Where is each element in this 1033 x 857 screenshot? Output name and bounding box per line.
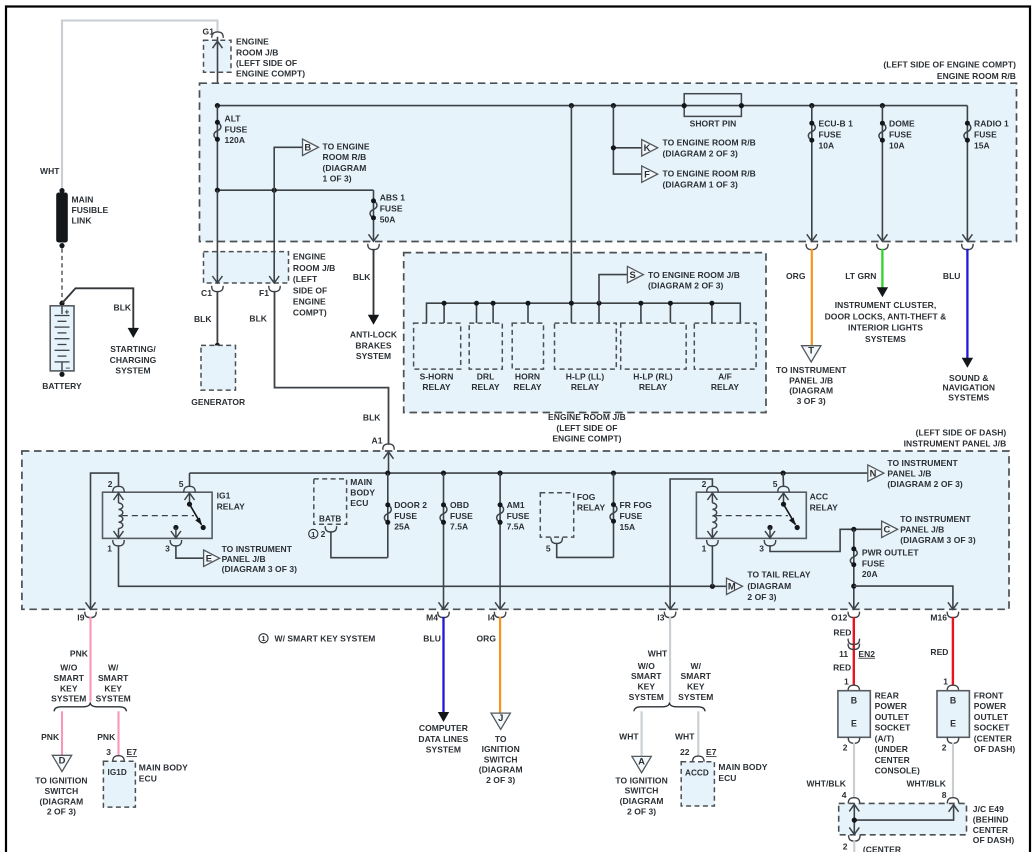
svg-text:FUSE: FUSE [889,130,912,140]
svg-text:1 OF 3): 1 OF 3) [323,174,352,184]
svg-text:SOCKET: SOCKET [875,723,911,733]
connector A1 [383,444,394,450]
svg-text:TO: TO [495,734,507,744]
svg-text:TO INSTRUMENT: TO INSTRUMENT [222,544,293,554]
fuse DOME 10A [881,106,883,242]
svg-text:EN2: EN2 [858,649,875,659]
svg-text:S-HORN: S-HORN [420,372,454,382]
IG1 pin3 contact [173,525,178,530]
svg-text:(LEFT SIDE OF: (LEFT SIDE OF [556,423,617,433]
wire WHT/BLK rear [853,742,855,797]
svg-text:(UNDER: (UNDER [875,744,908,754]
connector E49 pin4 [848,798,859,804]
connector ACC pin2 [707,486,718,492]
svg-text:(A/T): (A/T) [875,733,895,743]
svg-text:S: S [630,269,636,280]
generator box [201,345,236,390]
short pin [684,94,741,117]
svg-text:ALT: ALT [225,114,242,124]
svg-text:SWITCH: SWITCH [44,786,78,796]
wire FOG pin5 to fuse [557,543,614,557]
svg-text:5: 5 [546,544,551,554]
wire PNK to IG1D [117,711,119,756]
svg-text:RELAY: RELAY [217,501,246,511]
connector abs out [368,244,379,250]
svg-text:E: E [851,719,857,729]
svg-text:ENGINE ROOM R/B: ENGINE ROOM R/B [937,71,1016,81]
svg-text:M: M [728,581,736,592]
svg-text:E: E [950,719,956,729]
engine room J/B relay box [404,253,766,413]
svg-text:3: 3 [165,543,170,553]
node acc pin1 rail [710,584,715,589]
svg-text:RELAY: RELAY [639,382,668,392]
svg-text:CONSOLE): CONSOLE) [875,766,920,776]
svg-text:2 OF 3): 2 OF 3) [47,807,76,817]
svg-text:PNK: PNK [70,649,89,659]
connector M16 [947,612,958,618]
svg-text:20A: 20A [862,569,878,579]
connector ACC pin5 [778,486,789,492]
svg-text:PANEL J/B: PANEL J/B [222,554,266,564]
svg-text:ROOM R/B: ROOM R/B [323,152,367,162]
svg-text:TO INSTRUMENT: TO INSTRUMENT [887,458,958,468]
svg-text:FR FOG: FR FOG [620,500,653,510]
fuse AM1 7.5A [499,473,501,609]
main fusible link [59,188,64,193]
svg-text:REAR: REAR [875,690,899,700]
relay S-HORN [414,323,461,369]
svg-text:FUSE: FUSE [620,511,643,521]
svg-text:E7: E7 [127,747,138,757]
connector front socket pin1 [947,685,958,691]
engine room J/B box top [204,40,232,72]
node E49 [852,818,857,823]
svg-text:ENGINE: ENGINE [293,297,326,307]
svg-text:C1: C1 [201,288,212,298]
wire WHT I3 [669,617,671,702]
svg-text:POWER: POWER [875,701,907,711]
svg-text:DOOR LOCKS, ANTI-THEFT &: DOOR LOCKS, ANTI-THEFT & [825,311,947,321]
main body ECU box ACCD [681,762,714,806]
coil IG1 [118,493,120,503]
wire WHT to ACCD [697,711,699,756]
svg-text:KEY: KEY [60,683,78,693]
wire alt to C1 [216,190,218,283]
svg-text:FUSE: FUSE [819,130,842,140]
connector rear socket pin1 [848,685,859,691]
svg-text:W/: W/ [691,661,702,671]
fuse RADIO 1 15A [966,106,968,242]
svg-text:LT GRN: LT GRN [845,271,876,281]
svg-text:KEY: KEY [104,683,122,693]
svg-text:IG1D: IG1D [108,768,127,777]
coil ACC [711,493,713,503]
svg-text:WHT/BLK: WHT/BLK [906,778,946,788]
svg-text:AM1: AM1 [507,500,525,510]
svg-text:BLU: BLU [943,271,961,281]
svg-text:HORN: HORN [515,372,540,382]
svg-text:A1: A1 [372,436,383,446]
flag D to ignition switch [52,755,71,771]
svg-text:RELAY: RELAY [513,382,542,392]
svg-text:FOG: FOG [577,492,596,502]
svg-text:(LEFT: (LEFT [293,274,318,284]
svg-text:T: T [808,345,814,356]
node bus obd [441,471,446,476]
wire RED M16 [952,617,954,685]
connector front socket pin2 [947,737,958,743]
svg-text:SYSTEM: SYSTEM [356,351,391,361]
svg-text:RELAY: RELAY [577,503,606,513]
node bus door2 [385,471,390,476]
wire BLK anti-lock [373,249,375,317]
wire ORG to T [811,249,813,346]
svg-text:(CENTER: (CENTER [863,844,901,852]
wire I3 link [670,479,712,609]
svg-text:(DIAGRAM: (DIAGRAM [479,765,523,775]
svg-text:TO ENGINE: TO ENGINE [323,142,370,152]
svg-text:WHT: WHT [648,649,668,659]
connector I9 [85,612,96,618]
fuse PWR OUTLET 20A [853,529,855,609]
brace I9 split [54,702,127,711]
node bus-dome [880,103,885,108]
node bus-alt [215,103,220,108]
svg-text:H-LP (LL): H-LP (LL) [566,372,605,382]
svg-text:STARTING/: STARTING/ [110,344,156,354]
svg-text:BLK: BLK [114,303,132,313]
svg-text:TO IGNITION: TO IGNITION [615,775,667,785]
connector FOG pin5 [551,538,562,544]
svg-text:(DIAGRAM: (DIAGRAM [789,386,833,396]
svg-text:120A: 120A [225,135,246,145]
svg-text:IG1: IG1 [217,491,231,501]
svg-text:11: 11 [839,649,848,659]
svg-text:CHARGING: CHARGING [110,355,157,365]
connector F1 [269,286,280,292]
svg-text:–: – [66,364,71,373]
svg-text:(DIAGRAM: (DIAGRAM [39,796,83,806]
svg-text:K: K [644,142,651,153]
svg-text:RELAY: RELAY [711,382,740,392]
svg-text:F: F [644,169,650,180]
wire ACC pin5 riser [782,473,784,487]
wire IG1 pin1 rail [119,545,727,586]
node B-branch [272,188,277,193]
svg-text:WHT: WHT [40,166,60,176]
svg-text:MAIN: MAIN [72,195,94,205]
wire WHT battery feed [62,21,218,190]
instrument panel J/B box [22,451,1009,609]
svg-text:25A: 25A [394,522,410,532]
svg-text:INSTRUMENT CLUSTER,: INSTRUMENT CLUSTER, [835,300,937,310]
svg-text:10A: 10A [889,141,905,151]
svg-text:BLK: BLK [363,412,381,422]
relay FOG box [540,493,573,537]
svg-text:(DIAGRAM 2 OF 3): (DIAGRAM 2 OF 3) [663,149,739,159]
svg-text:15A: 15A [620,522,636,532]
svg-text:FRONT: FRONT [974,690,1004,700]
fuse FR FOG 15A [613,473,615,557]
svg-text:NAVIGATION: NAVIGATION [942,383,995,393]
svg-text:WHT: WHT [675,732,695,742]
svg-text:ECU: ECU [139,773,157,783]
wire dashed battery link [61,249,63,302]
svg-text:(DIAGRAM 1 OF 3): (DIAGRAM 1 OF 3) [663,179,739,189]
svg-text:BLK: BLK [353,272,371,282]
svg-text:(DIAGRAM 2 OF 3): (DIAGRAM 2 OF 3) [887,479,963,489]
svg-text:W/: W/ [108,663,119,673]
svg-text:ROOM J/B: ROOM J/B [293,263,335,273]
svg-text:OF DASH): OF DASH) [974,744,1016,754]
svg-text:PANEL J/B: PANEL J/B [900,525,944,535]
svg-text:22: 22 [680,747,690,757]
svg-text:J/C E49: J/C E49 [973,804,1004,814]
svg-text:KEY: KEY [637,682,655,692]
connector rear socket pin2 [848,737,859,743]
svg-text:W/O: W/O [638,661,655,671]
main body ECU box IG1D [103,761,135,807]
connector IG1 pin3 [170,540,181,546]
svg-text:ANTI-LOCK: ANTI-LOCK [350,330,398,340]
main body ECU box BATB [314,479,347,524]
wire BLU sound [966,249,968,358]
relay IG1 [103,492,213,538]
svg-text:PANEL J/B: PANEL J/B [789,375,833,385]
svg-text:OBD: OBD [450,500,469,510]
wire WHT/BLK front [952,742,954,797]
svg-text:FUSE: FUSE [974,130,997,140]
svg-text:ENGINE ROOM J/B: ENGINE ROOM J/B [548,412,626,422]
wire C1 to generator [216,291,218,346]
brace I3 split [634,702,705,711]
svg-text:50A: 50A [380,215,396,225]
svg-text:DRL: DRL [477,372,495,382]
svg-text:2 OF 3): 2 OF 3) [627,806,656,816]
svg-text:ECU: ECU [718,773,736,783]
svg-text:1: 1 [844,676,849,686]
svg-text:RADIO 1: RADIO 1 [974,119,1009,129]
svg-text:COMPUTER: COMPUTER [419,723,468,733]
svg-text:O12: O12 [831,613,847,623]
note smart key [259,634,268,643]
svg-text:ECU: ECU [350,498,368,508]
svg-text:3: 3 [759,543,764,553]
svg-text:E: E [206,553,212,564]
svg-text:(CENTER: (CENTER [974,733,1012,743]
svg-text:SYSTEM: SYSTEM [629,692,664,702]
svg-text:SWITCH: SWITCH [625,786,659,796]
svg-text:MAIN BODY: MAIN BODY [718,762,767,772]
svg-text:OUTLET: OUTLET [875,712,910,722]
svg-text:INTERIOR LIGHTS: INTERIOR LIGHTS [848,323,923,333]
svg-text:10A: 10A [819,141,835,151]
svg-text:(DIAGRAM: (DIAGRAM [620,796,664,806]
svg-text:ACCD: ACCD [685,768,709,777]
svg-text:OF DASH): OF DASH) [973,835,1015,845]
fuse ECU-B 1 10A [811,106,813,242]
connector IG1 pin2 [113,486,124,492]
svg-text:RELAY: RELAY [571,382,600,392]
svg-text:(LEFT SIDE OF DASH): (LEFT SIDE OF DASH) [916,427,1007,437]
svg-text:ROOM J/B: ROOM J/B [236,47,278,57]
svg-text:1: 1 [702,543,707,553]
svg-text:2: 2 [843,743,848,753]
svg-text:W/ SMART KEY SYSTEM: W/ SMART KEY SYSTEM [275,633,376,643]
svg-text:(LEFT SIDE OF ENGINE COMPT): (LEFT SIDE OF ENGINE COMPT) [883,60,1016,70]
node bus am1 [498,471,503,476]
wire B-branch to F1 [273,190,275,283]
svg-text:I9: I9 [77,613,84,623]
svg-text:PNK: PNK [41,732,60,742]
svg-text:A/F: A/F [718,372,732,382]
connector E49 pin2 [849,835,860,841]
node generator terminal [215,343,220,348]
svg-text:ENGINE: ENGINE [293,252,326,262]
svg-text:DOME: DOME [889,119,915,129]
svg-text:B: B [950,696,956,706]
svg-text:CENTER: CENTER [875,755,910,765]
svg-text:SMART: SMART [54,673,85,683]
svg-text:LINK: LINK [72,216,93,226]
node pwr fuse split [851,584,856,589]
flag F to engine room R/B [642,166,658,182]
svg-text:ABS 1: ABS 1 [380,193,406,203]
flag N to instrument panel [868,465,884,481]
junction connector E49 box [839,803,967,834]
connector E49 pin8 [947,798,958,804]
svg-text:3 OF 3): 3 OF 3) [797,396,826,406]
wire RED O12 [853,617,855,685]
flag T to instrument panel [802,346,821,362]
svg-text:ACC: ACC [810,492,829,502]
connector G1 [212,32,223,38]
svg-text:1: 1 [943,676,948,686]
ACC dashed link [716,515,788,517]
svg-text:BLK: BLK [249,313,267,323]
svg-text:J: J [498,712,503,723]
svg-text:SMART: SMART [98,673,129,683]
svg-text:BATB: BATB [319,515,341,524]
flag B to engine room R/B [303,139,319,155]
svg-text:BATTERY: BATTERY [42,381,82,391]
svg-text:SWITCH: SWITCH [484,754,518,764]
svg-text:DATA LINES: DATA LINES [418,734,468,744]
svg-text:2: 2 [321,529,326,539]
svg-text:TO ENGINE ROOM J/B: TO ENGINE ROOM J/B [648,270,740,280]
wire A1 to bus [388,451,390,473]
svg-text:ORG: ORG [786,271,806,281]
svg-text:SYSTEM: SYSTEM [96,694,131,704]
wire F1 to A1 BLK [275,291,389,445]
connector M4 [438,612,449,618]
connector E7 ACCD [693,756,704,762]
IG1 dashed link [122,515,194,517]
svg-text:(BEHIND: (BEHIND [973,814,1009,824]
wire PNK I9 [89,617,91,702]
svg-text:FUSE: FUSE [450,511,473,521]
node bus-ecub [809,103,814,108]
svg-text:MAIN: MAIN [350,477,372,487]
svg-text:PNK: PNK [97,732,116,742]
connector O12 [848,612,859,618]
svg-text:RELAY: RELAY [422,382,451,392]
svg-text:RELAY: RELAY [810,502,839,512]
ACC pin3 contact [767,525,772,530]
svg-text:M4: M4 [426,613,438,623]
connector I3 [664,612,675,618]
svg-text:RED: RED [833,627,851,637]
relay HORN [512,323,543,369]
svg-text:SOCKET: SOCKET [974,723,1010,733]
wire to B triangle [274,147,302,190]
fuse ALT 120A [216,106,218,191]
svg-text:SYSTEM: SYSTEM [678,692,713,702]
svg-text:3: 3 [106,747,111,757]
connector IG1 pin1 [113,540,124,546]
svg-text:7.5A: 7.5A [507,522,525,532]
relay H-LP RL [621,323,687,369]
svg-text:(LEFT SIDE OF: (LEFT SIDE OF [236,58,297,68]
svg-text:F1: F1 [259,288,269,298]
wire G1 to bus [217,37,219,106]
svg-text:POWER: POWER [974,701,1006,711]
fuse ABS 1 50A [373,190,375,241]
svg-text:OUTLET: OUTLET [974,712,1009,722]
svg-text:2 OF 3): 2 OF 3) [747,592,776,602]
engine room J/B box left [204,252,289,283]
svg-text:PWR OUTLET: PWR OUTLET [862,548,919,558]
svg-text:FUSE: FUSE [394,511,417,521]
svg-text:2: 2 [702,479,707,489]
flag K to engine room R/B [642,140,658,156]
wire ACC pin1 drop [711,545,713,586]
svg-text:CENTER: CENTER [973,825,1008,835]
svg-text:N: N [870,468,877,479]
svg-text:WHT/BLK: WHT/BLK [806,778,846,788]
svg-text:FUSE: FUSE [380,204,403,214]
connector EN2 pair [848,639,859,645]
connector ACC pin3 [764,540,775,546]
svg-text:RELAY: RELAY [471,382,500,392]
wire BLK to starting system [62,288,133,328]
flag S to engine room J/B [627,266,643,282]
connector C1 [212,286,223,292]
svg-text:H-LP (RL): H-LP (RL) [633,372,673,382]
node bus-jb-feed [569,103,574,108]
svg-text:TO ENGINE ROOM R/B: TO ENGINE ROOM R/B [663,138,756,148]
wire panel bus [190,472,868,474]
svg-text:2 OF 3): 2 OF 3) [486,775,515,785]
svg-text:2: 2 [942,743,947,753]
relay DRL [469,323,502,369]
svg-text:SYSTEM: SYSTEM [51,694,86,704]
svg-text:SYSTEM: SYSTEM [115,365,150,375]
svg-text:2: 2 [843,841,848,851]
svg-text:SIDE OF: SIDE OF [293,285,327,295]
svg-text:DOOR 2: DOOR 2 [394,500,427,510]
svg-text:FUSE: FUSE [507,511,530,521]
svg-text:TO TAIL RELAY: TO TAIL RELAY [747,570,810,580]
front power outlet socket [937,691,969,738]
relay A/F [694,323,756,369]
svg-text:ECU-B 1: ECU-B 1 [819,119,854,129]
svg-text:8: 8 [942,790,947,800]
svg-text:KEY: KEY [687,682,705,692]
svg-text:TO INSTRUMENT: TO INSTRUMENT [900,514,971,524]
connector radio out [962,244,973,250]
